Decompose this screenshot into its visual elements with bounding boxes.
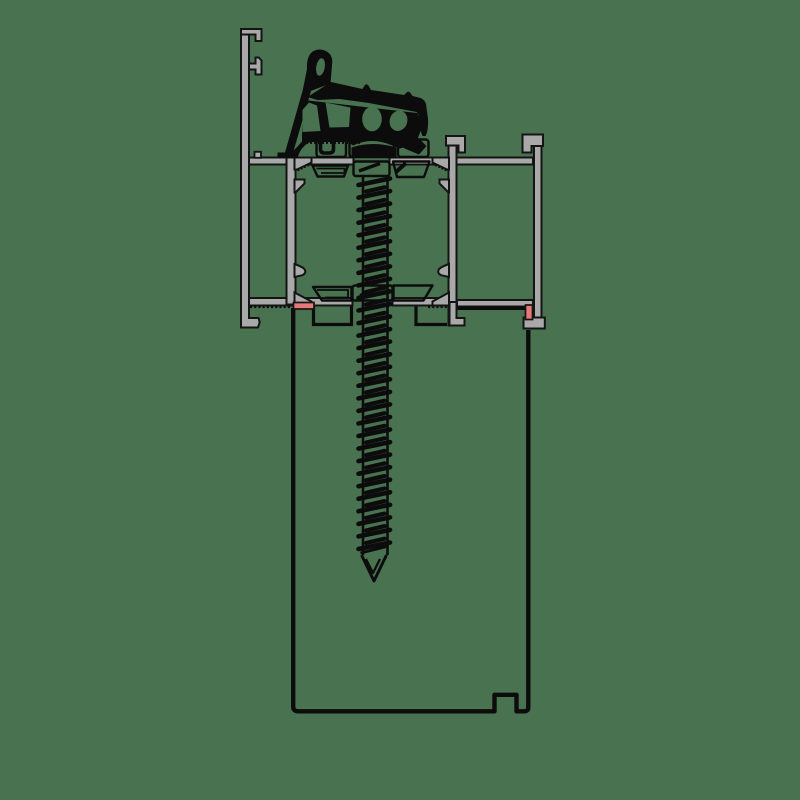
gasket web hole C [362, 107, 382, 132]
gasket hook hole [315, 58, 327, 77]
right outer wall top cap [523, 135, 544, 153]
thermal strip TB3 [394, 286, 433, 301]
red marker right [526, 305, 533, 320]
gasket web hole A [303, 103, 321, 133]
left frame profile bar [241, 29, 260, 328]
right outer wall [534, 145, 542, 320]
gasket clip U in box 1 [321, 140, 334, 153]
clip bump 2 [278, 142, 310, 158]
screw threads [359, 179, 391, 550]
groove box 2 [350, 140, 395, 158]
right screw channel [416, 307, 447, 325]
center-left wall [287, 158, 296, 305]
gasket bit in T3 [396, 163, 406, 172]
center-left wall bottom gusset [295, 293, 312, 306]
gasket mid web [302, 100, 421, 149]
right bottom flange [457, 300, 533, 307]
gasket web hole B [326, 103, 351, 128]
left frame top cap [241, 29, 262, 41]
gasket web hole D [387, 108, 410, 133]
serration teeth [250, 305, 292, 308]
center-right wall lower finger [450, 302, 465, 326]
center-left wall upper tooth [295, 180, 305, 193]
left frame hook [249, 58, 262, 75]
gasket left leg [284, 88, 312, 159]
screw core [363, 176, 388, 555]
groove box 3 [398, 140, 429, 158]
groove box 1 [317, 140, 347, 158]
gasket web serration [306, 142, 360, 144]
top flange left [249, 158, 354, 165]
clip bump 1 [255, 152, 262, 158]
center-right wall top gusset [433, 158, 450, 170]
center-left wall lower bulge [295, 264, 306, 277]
left screw channel [314, 307, 352, 325]
gasket dip into box 3 [400, 141, 427, 155]
center-right wall upper tooth [440, 180, 450, 193]
right outer wall foot [524, 318, 545, 329]
thermal strip TB1 [313, 287, 352, 301]
subframe box outline [293, 308, 528, 711]
center-left wall top gusset [295, 158, 312, 170]
screw tip [361, 546, 389, 581]
thermal strip T1 [313, 166, 349, 177]
thermal strip TB2 (screw box) [353, 286, 393, 301]
thread slash in T2 [359, 164, 380, 172]
gasket main band [308, 82, 429, 136]
gasket top hook [303, 49, 332, 92]
center-right wall bottom gusset [433, 293, 450, 306]
thermal strip T2 (screw box) [354, 162, 390, 177]
red marker left [294, 303, 315, 310]
center-right wall top cap [446, 136, 465, 153]
center-right wall lower bulge [438, 264, 449, 277]
thread slash in TB2 [360, 288, 381, 296]
bottom flange right of screw [393, 298, 449, 306]
center-right wall [449, 136, 457, 326]
screw head [352, 144, 397, 158]
thermal strip T3 [393, 162, 430, 178]
top flange right [390, 158, 534, 165]
bottom flange left (serrated) [249, 298, 353, 306]
